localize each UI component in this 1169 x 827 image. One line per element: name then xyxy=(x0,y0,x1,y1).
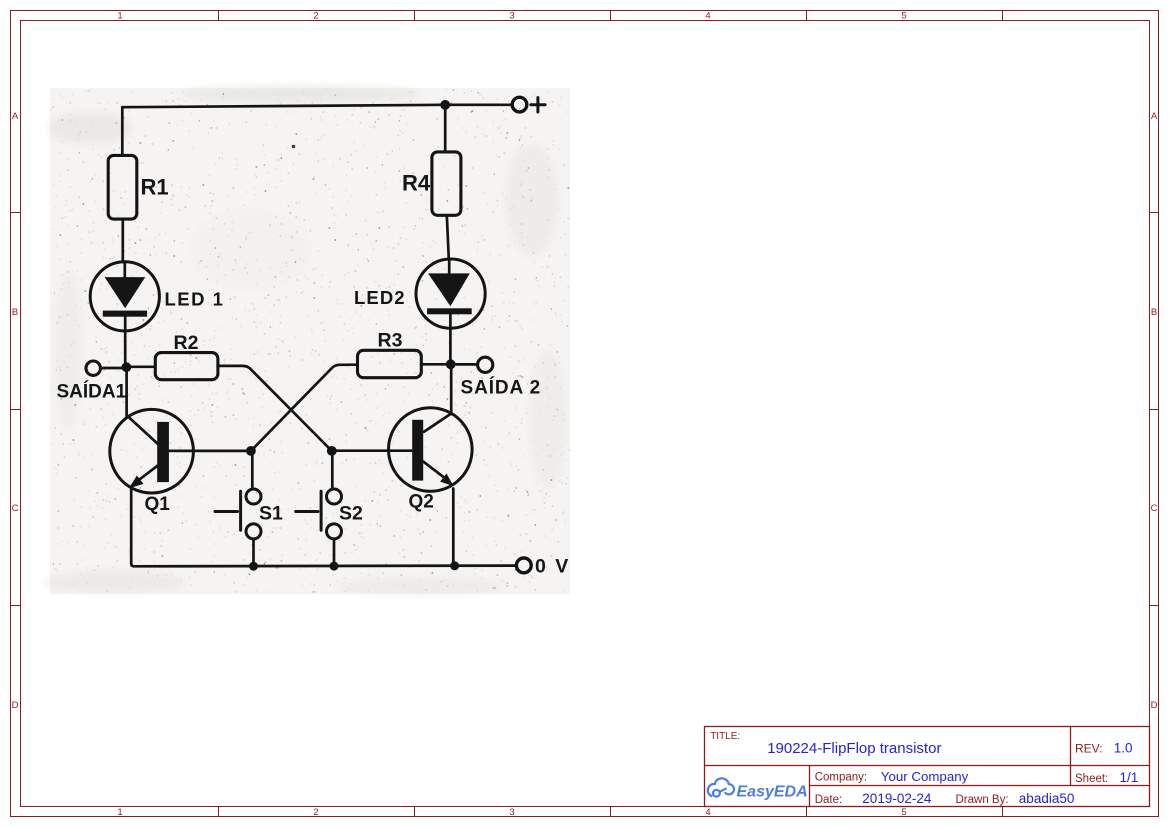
switch S1 actuator xyxy=(239,491,242,530)
svg-text:SAÍDA 2: SAÍDA 2 xyxy=(461,377,542,399)
wire R3 to Q1 base (diagonal) xyxy=(251,365,358,451)
svg-text:5: 5 xyxy=(901,11,906,22)
circuit labels xyxy=(57,98,571,578)
title block divider rev column xyxy=(1070,727,1072,786)
LED D1 cathode bar xyxy=(103,311,147,317)
terminal + xyxy=(512,97,527,112)
junction Q2 base node xyxy=(327,446,337,456)
svg-text:Sheet:: Sheet: xyxy=(1075,773,1108,785)
resistor R3 xyxy=(358,350,422,377)
terminal SAIDA1 xyxy=(86,361,100,375)
svg-text:3: 3 xyxy=(509,807,514,818)
resistor R2 xyxy=(155,353,218,380)
wire LED1 to Q1 collector xyxy=(125,367,128,417)
wire + rail vertical to R4 xyxy=(444,105,447,152)
junction rail S1 xyxy=(249,562,258,571)
frame column labels top xyxy=(117,11,906,22)
LED D2 cathode bar xyxy=(427,308,472,314)
frame row ticks left xyxy=(11,213,21,606)
wire R1 to LED1 xyxy=(121,219,124,262)
LED D2 triangle xyxy=(428,273,470,306)
svg-text:2: 2 xyxy=(313,11,318,22)
wire Q1 base lead xyxy=(169,450,251,453)
switch S2 stem bottom xyxy=(333,539,336,562)
Q2 emitter arrow xyxy=(440,474,454,487)
scan speckle noise xyxy=(51,89,570,592)
svg-text:2019-02-24: 2019-02-24 xyxy=(862,791,932,806)
frame row ticks right xyxy=(1150,213,1159,606)
junction top rail xyxy=(440,100,450,110)
LED D2 xyxy=(416,259,485,328)
wire top rail xyxy=(122,105,511,107)
wire LED2 node to Q2 collector xyxy=(450,364,453,414)
junction SAIDA2 node xyxy=(446,359,456,369)
wire R3 to right node xyxy=(421,363,446,366)
wire node to R2 xyxy=(130,365,155,368)
svg-text:R4: R4 xyxy=(402,171,431,196)
wire Q2 emitter down xyxy=(452,489,455,564)
svg-text:C: C xyxy=(12,503,19,514)
wire Q1 emitter down xyxy=(130,490,133,564)
svg-text:4: 4 xyxy=(705,807,710,818)
svg-text:Q1: Q1 xyxy=(145,494,171,515)
title block divider logo cell xyxy=(809,766,811,807)
svg-text:TITLE:: TITLE: xyxy=(710,731,740,742)
switch S1 stem bottom xyxy=(252,539,255,562)
frame row labels right xyxy=(1151,111,1158,711)
svg-text:1/1: 1/1 xyxy=(1120,770,1139,785)
label plus xyxy=(531,98,545,112)
switch S2 circles xyxy=(327,489,342,504)
resistor R4 xyxy=(432,152,461,215)
svg-text:3: 3 xyxy=(509,11,514,22)
svg-text:Date:: Date: xyxy=(815,794,843,806)
transistor Q2 xyxy=(389,408,473,492)
svg-text:190224-FlipFlop transistor: 190224-FlipFlop transistor xyxy=(767,740,941,757)
svg-text:S2: S2 xyxy=(339,503,363,525)
svg-text:2: 2 xyxy=(313,807,318,818)
svg-text:1: 1 xyxy=(117,807,122,818)
svg-text:Q2: Q2 xyxy=(409,492,434,513)
svg-text:D: D xyxy=(12,700,19,711)
svg-text:Your Company: Your Company xyxy=(881,769,969,784)
junction rail S2 xyxy=(330,562,339,571)
svg-text:S1: S1 xyxy=(259,503,283,525)
svg-text:0 V: 0 V xyxy=(535,556,570,578)
switch S2 stem top xyxy=(331,456,334,489)
svg-text:LED 1: LED 1 xyxy=(165,289,225,310)
terminal SAIDA2 xyxy=(478,357,493,372)
frame column ticks top xyxy=(219,11,1003,21)
wire Q2 base lead xyxy=(332,449,412,452)
svg-text:R2: R2 xyxy=(174,332,199,354)
svg-text:1: 1 xyxy=(117,11,122,22)
junction Q1 base node xyxy=(246,446,256,456)
svg-text:B: B xyxy=(1151,307,1157,318)
switch S1 circles xyxy=(246,489,261,504)
wire SAIDA1 stub xyxy=(101,367,122,370)
resistor R1 xyxy=(108,155,137,219)
svg-text:abadia50: abadia50 xyxy=(1019,791,1075,806)
wire R4 to LED2 xyxy=(447,215,449,259)
svg-text:Company:: Company: xyxy=(815,771,867,783)
svg-text:D: D xyxy=(1151,700,1158,711)
frame row labels left xyxy=(12,111,19,711)
title block line under company row xyxy=(810,785,1150,787)
svg-text:R3: R3 xyxy=(378,330,403,352)
svg-text:A: A xyxy=(1151,111,1158,122)
Q1 base bar xyxy=(157,422,169,482)
switch S2 actuator xyxy=(320,491,323,530)
junction rail Q2 xyxy=(450,561,459,570)
title block line under title row xyxy=(705,765,1150,767)
scanned picture background xyxy=(50,88,570,594)
wire SAIDA2 stub xyxy=(455,363,478,366)
scan dark speck xyxy=(292,145,296,149)
Q1 emitter arrow xyxy=(129,476,144,489)
svg-text:SAÍDA1: SAÍDA1 xyxy=(57,381,127,403)
Q2 base bar xyxy=(412,420,423,481)
svg-text:C: C xyxy=(1151,503,1158,514)
switch S1 stem top xyxy=(251,456,254,489)
frame column labels bottom xyxy=(117,807,906,818)
junction SAIDA1 node xyxy=(122,362,132,372)
svg-text:5: 5 xyxy=(901,807,906,818)
svg-text:4: 4 xyxy=(705,11,710,22)
wire R2 to Q2 base (diagonal) xyxy=(218,366,332,451)
svg-text:B: B xyxy=(12,307,18,318)
wire bottom rail xyxy=(131,564,515,567)
scan smudge patches xyxy=(45,85,566,596)
svg-text:A: A xyxy=(12,111,19,122)
title block outline xyxy=(705,727,1150,807)
frame column ticks bottom xyxy=(219,807,1003,817)
svg-text:REV:: REV: xyxy=(1075,742,1103,756)
svg-text:1.0: 1.0 xyxy=(1114,740,1133,755)
LED D1 triangle xyxy=(105,277,146,308)
svg-text:LED2: LED2 xyxy=(354,287,406,308)
svg-text:R1: R1 xyxy=(141,175,169,200)
LED D1 xyxy=(90,262,159,331)
terminal 0V xyxy=(516,558,531,573)
EasyEDA logo cloud xyxy=(708,778,734,796)
wire left vertical to R1 xyxy=(121,107,124,155)
transistor Q1 xyxy=(110,409,194,493)
svg-text:EasyEDA: EasyEDA xyxy=(737,784,808,801)
svg-text:Drawn By:: Drawn By: xyxy=(956,794,1009,806)
